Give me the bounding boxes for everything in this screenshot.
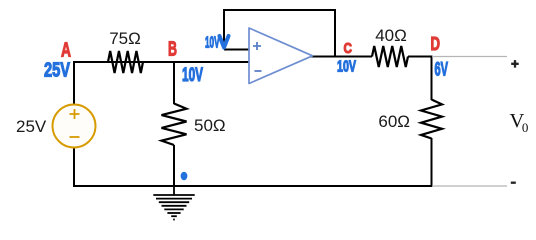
svg-text:75Ω: 75Ω xyxy=(109,29,141,48)
wire output terminal minus (gray lead) xyxy=(432,185,507,187)
resistor R1 75ohm xyxy=(108,51,143,73)
svg-text:25V: 25V xyxy=(44,60,70,82)
wire 50ohm bottom to bottom rail xyxy=(173,145,175,186)
output terminal minus sign xyxy=(511,182,516,184)
node 0 marker (blue dot near ground) xyxy=(181,172,188,181)
wire feedback loop from output over the top to non-inverting input xyxy=(224,10,335,57)
resistor R2 50ohm xyxy=(162,104,187,146)
svg-text:25V: 25V xyxy=(16,117,47,136)
wire output terminal plus (gray lead) xyxy=(432,56,507,58)
svg-text:50Ω: 50Ω xyxy=(194,116,226,135)
wire A to B to op-amp inverting input xyxy=(74,61,249,63)
wire node D down to 60ohm top xyxy=(431,57,433,101)
arrow down at non-inverting input (blue handwritten) xyxy=(220,36,229,48)
svg-text:B: B xyxy=(168,39,177,61)
wire bottom rail xyxy=(74,185,433,187)
svg-text:10V: 10V xyxy=(182,65,203,86)
wire node B down to 50ohm top xyxy=(173,62,175,104)
op-amp U1 xyxy=(249,28,313,84)
wire 60ohm bottom to bottom rail xyxy=(431,138,433,187)
ground xyxy=(153,186,194,220)
wire source bottom to bottom rail xyxy=(73,147,75,187)
resistor R3 40ohm xyxy=(372,46,408,67)
voltage source V1 25V xyxy=(53,105,96,148)
svg-text:10V: 10V xyxy=(337,59,356,76)
output terminal plus sign xyxy=(511,60,519,68)
wire left vertical from A down to source top xyxy=(73,61,75,105)
resistor R4 60ohm xyxy=(421,100,442,139)
svg-text:A: A xyxy=(61,40,71,62)
svg-text:60Ω: 60Ω xyxy=(378,112,410,131)
svg-text:40Ω: 40Ω xyxy=(375,26,407,45)
wire op-amp non-inverting input xyxy=(224,49,249,51)
svg-text:D: D xyxy=(431,34,441,54)
svg-text:C: C xyxy=(344,40,353,57)
svg-text:6V: 6V xyxy=(435,60,449,81)
svg-text:10V: 10V xyxy=(205,35,220,52)
wire op-amp output to node C to 40ohm xyxy=(311,56,372,58)
wire 40ohm to node D xyxy=(408,56,433,58)
